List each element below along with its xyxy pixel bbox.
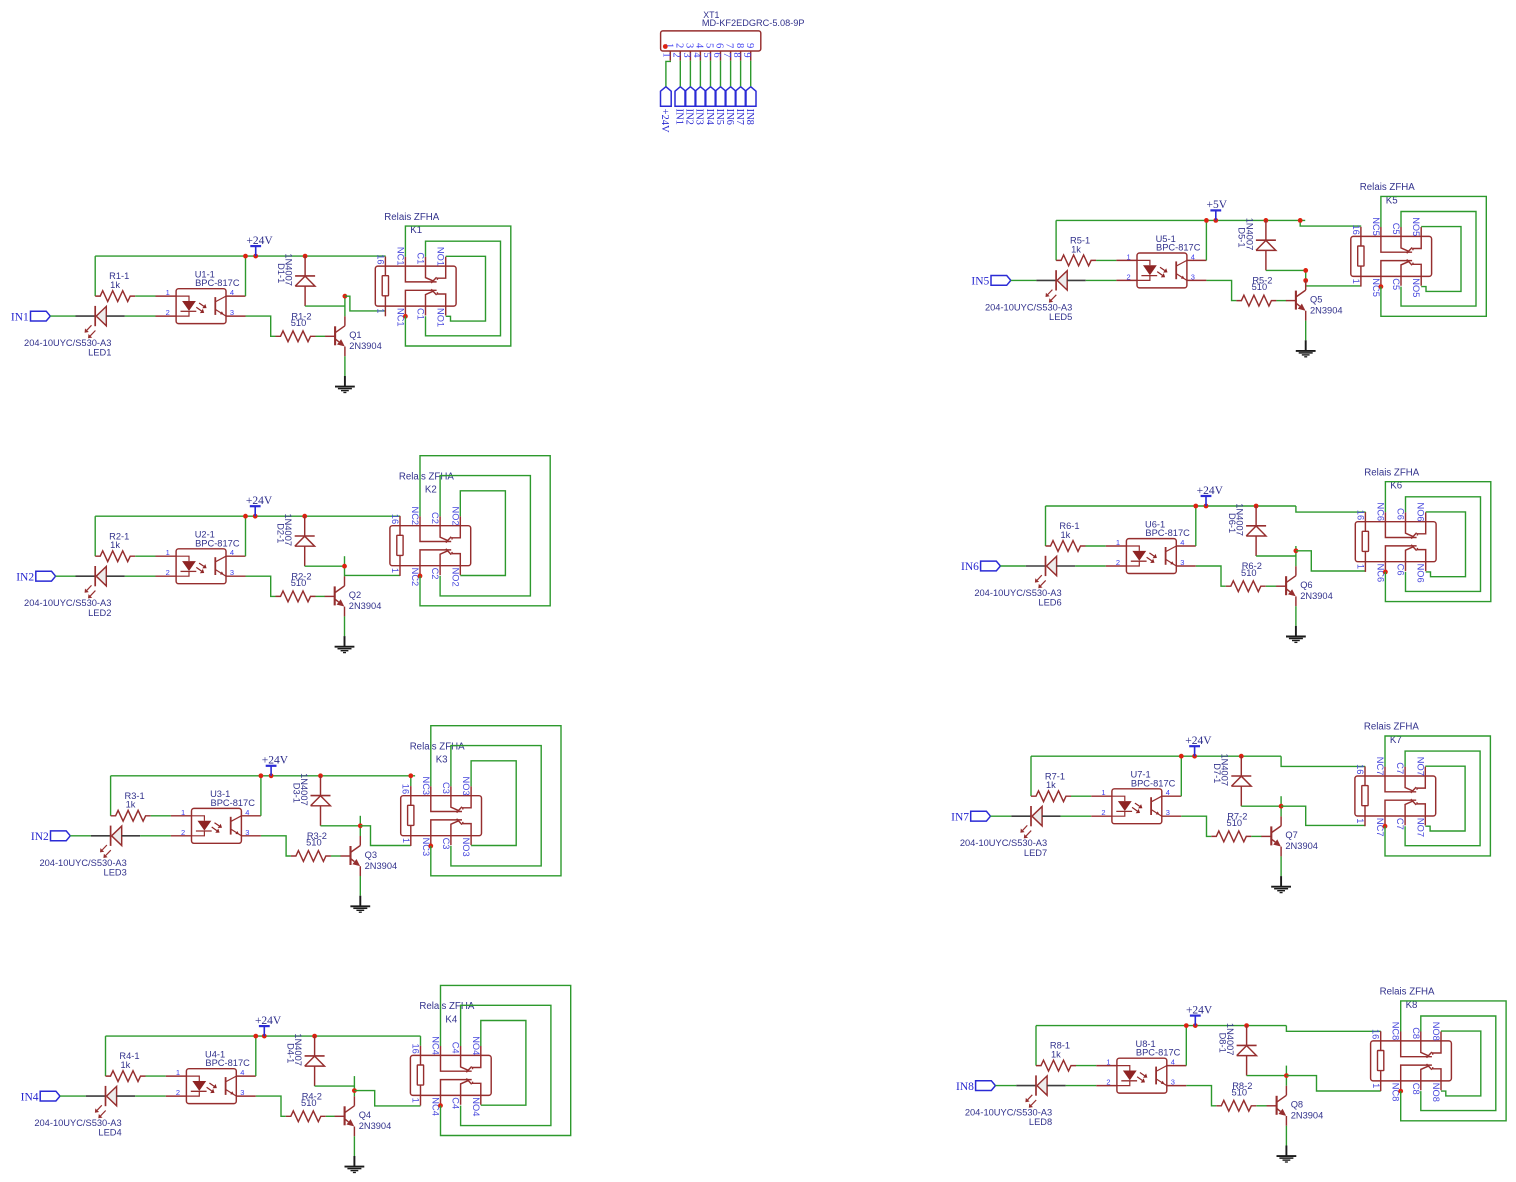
svg-text:3: 3 bbox=[1166, 808, 1170, 817]
svg-text:+24V: +24V bbox=[246, 235, 273, 247]
svg-text:BPC-817C: BPC-817C bbox=[195, 538, 240, 548]
wire port to LED bbox=[70, 835, 91, 837]
wire R to optocoupler pin 1 bbox=[151, 815, 171, 817]
svg-text:Q8: Q8 bbox=[1291, 1100, 1303, 1110]
power symbol +5V bbox=[1207, 199, 1228, 220]
svg-text:16: 16 bbox=[375, 254, 385, 264]
wire optocoupler pin 4 to rail bbox=[1195, 506, 1197, 546]
svg-text:4: 4 bbox=[691, 52, 702, 58]
port IN8 (XT1 pin 9) bbox=[744, 87, 756, 125]
svg-text:NO2: NO2 bbox=[450, 568, 460, 587]
wire LED to optocoupler pin 2 bbox=[1061, 815, 1092, 817]
svg-text:1: 1 bbox=[1356, 564, 1366, 569]
port IN2 (channel 3 input) bbox=[31, 831, 70, 843]
wire rail drop to relay pin 16 bbox=[420, 1036, 422, 1046]
wire C6 loop bbox=[1406, 497, 1481, 592]
svg-text:4: 4 bbox=[245, 808, 249, 817]
svg-text:1: 1 bbox=[411, 1098, 421, 1103]
LED1 204-10UYC/S530-A3 bbox=[24, 306, 125, 358]
transistor Q6 2N3904 bbox=[1276, 566, 1333, 606]
svg-text:9: 9 bbox=[744, 43, 755, 48]
LED8 204-10UYC/S530-A3 bbox=[965, 1075, 1066, 1127]
junction at optocoupler pin 4 / rail bbox=[1204, 218, 1209, 223]
wire rail step to relay pin 16 bbox=[1286, 1026, 1381, 1032]
wire LED to optocoupler pin 2 bbox=[1086, 279, 1117, 281]
wire port to LED bbox=[56, 575, 76, 577]
svg-text:5: 5 bbox=[701, 52, 712, 57]
wire collector node vertical bbox=[353, 1076, 355, 1096]
wire optocoupler pin 3 to base resistor bbox=[1186, 1086, 1216, 1106]
resistor R6-2 510 bbox=[1226, 561, 1266, 591]
port IN2 (XT1 pin 3) bbox=[684, 87, 696, 125]
node collector junction bbox=[1284, 1073, 1289, 1078]
junction at optocoupler pin 4 / rail bbox=[243, 254, 248, 259]
wire to relay pin 1 bbox=[1306, 285, 1361, 287]
svg-text:1: 1 bbox=[1351, 279, 1361, 284]
svg-text:NO1: NO1 bbox=[436, 247, 446, 266]
junction at relay NC bottom pin bbox=[1398, 1089, 1403, 1094]
connector XT1 pin 8 bbox=[731, 43, 745, 61]
junction at rail step bbox=[1298, 218, 1303, 223]
svg-text:4: 4 bbox=[1180, 538, 1184, 547]
wire NO6 loop bbox=[1426, 512, 1466, 577]
wire +V rail left vertical bbox=[94, 256, 96, 296]
svg-text:C4: C4 bbox=[451, 1097, 461, 1109]
resistor R7-2 510 bbox=[1211, 811, 1251, 841]
svg-text:IN1: IN1 bbox=[674, 109, 685, 125]
wire NC2 loop bbox=[420, 456, 550, 606]
junction at diode D1-1 / rail bbox=[303, 254, 308, 259]
svg-text:4: 4 bbox=[1171, 1058, 1175, 1067]
svg-text:IN3: IN3 bbox=[694, 109, 705, 125]
junction at optocoupler pin 4 / rail bbox=[1193, 504, 1198, 509]
node collector junction bbox=[1303, 268, 1308, 273]
svg-text:7: 7 bbox=[724, 43, 735, 48]
wire R to optocoupler pin 1 bbox=[1071, 795, 1091, 797]
svg-text:2: 2 bbox=[176, 1088, 180, 1097]
wire LED to optocoupler pin 2 bbox=[125, 315, 156, 317]
svg-text:C5: C5 bbox=[1391, 278, 1401, 290]
svg-text:BPC-817C: BPC-817C bbox=[1136, 1048, 1181, 1058]
wire to relay pin 1 bbox=[1296, 551, 1366, 571]
junction at relay pin 16 bbox=[408, 773, 413, 778]
resistor R4-1 1k bbox=[106, 1051, 146, 1081]
svg-text:510: 510 bbox=[291, 318, 307, 328]
svg-text:+24V: +24V bbox=[1197, 485, 1224, 497]
wire NC6 loop bbox=[1385, 482, 1490, 602]
svg-text:Relais ZFHA: Relais ZFHA bbox=[1364, 467, 1419, 478]
wire R to optocoupler pin 1 bbox=[135, 295, 155, 297]
ground bbox=[335, 376, 355, 393]
svg-text:Q1: Q1 bbox=[349, 330, 361, 340]
svg-text:1N4007: 1N4007 bbox=[1225, 1023, 1235, 1056]
LED5 204-10UYC/S530-A3 bbox=[985, 270, 1086, 322]
svg-text:2N3904: 2N3904 bbox=[1285, 841, 1318, 851]
wire optocoupler pin 4 to rail bbox=[1180, 756, 1182, 796]
svg-text:1: 1 bbox=[1371, 1083, 1381, 1088]
svg-text:C3: C3 bbox=[441, 838, 451, 850]
svg-text:16: 16 bbox=[1371, 1029, 1381, 1039]
svg-text:2N3904: 2N3904 bbox=[1310, 305, 1343, 315]
wire rail step to relay pin 16 bbox=[1300, 220, 1361, 226]
junction at diode D5-1 / rail bbox=[1264, 218, 1269, 223]
svg-text:Q3: Q3 bbox=[365, 850, 377, 860]
wire +V rail left vertical bbox=[110, 776, 112, 816]
svg-text:2: 2 bbox=[166, 568, 170, 577]
svg-text:3: 3 bbox=[245, 828, 249, 837]
svg-text:1: 1 bbox=[1355, 818, 1365, 823]
svg-text:BPC-817C: BPC-817C bbox=[1156, 243, 1201, 253]
wire rail step to relay pin 16 bbox=[1296, 506, 1366, 512]
junction at diode D8-1 / rail bbox=[1244, 1023, 1249, 1028]
svg-text:LED5: LED5 bbox=[1049, 312, 1072, 322]
power symbol +24V bbox=[1186, 1004, 1213, 1025]
svg-text:NC3: NC3 bbox=[421, 777, 431, 796]
wire +V rail left vertical bbox=[105, 1036, 107, 1076]
wire port to LED bbox=[50, 315, 75, 317]
wire to relay pin 1 bbox=[345, 574, 401, 576]
port IN4 (XT1 pin 5) bbox=[704, 87, 716, 126]
wire NC8 loop bbox=[1401, 1001, 1506, 1121]
svg-text:BPC-817C: BPC-817C bbox=[205, 1058, 250, 1068]
svg-text:1N4007: 1N4007 bbox=[1244, 218, 1254, 251]
svg-text:1k: 1k bbox=[1060, 530, 1070, 540]
junction at optocoupler pin 4 / rail bbox=[1179, 754, 1184, 759]
wire emitter to ground bbox=[344, 616, 346, 636]
diode D4-1 1N4007 bbox=[285, 1033, 324, 1086]
svg-text:6: 6 bbox=[714, 43, 725, 48]
wire emitter to ground bbox=[1285, 1126, 1287, 1146]
svg-text:NC1: NC1 bbox=[395, 247, 405, 266]
junction at diode D7-1 / rail bbox=[1239, 754, 1244, 759]
svg-text:2: 2 bbox=[1116, 558, 1120, 567]
node collector junction 2 bbox=[1303, 278, 1308, 283]
power junction on rail bbox=[253, 514, 258, 519]
svg-text:NO8: NO8 bbox=[1431, 1022, 1441, 1041]
ground bbox=[1271, 876, 1291, 893]
svg-text:1N4007: 1N4007 bbox=[299, 773, 309, 806]
wire base resistor to transistor bbox=[331, 855, 341, 857]
wire base resistor to transistor bbox=[1256, 1105, 1267, 1107]
wire XT1 pin 3 to IN2 port bbox=[689, 61, 691, 87]
transistor Q2 2N3904 bbox=[325, 576, 382, 616]
svg-text:NO7: NO7 bbox=[1415, 757, 1425, 776]
wire optocoupler pin 3 to base resistor bbox=[1181, 816, 1211, 836]
wire +V rail bbox=[1031, 755, 1281, 757]
resistor R2-2 510 bbox=[276, 571, 316, 601]
wire base resistor to transistor bbox=[316, 595, 326, 597]
node collector junction bbox=[358, 823, 363, 828]
svg-text:1: 1 bbox=[181, 808, 185, 817]
svg-text:1: 1 bbox=[401, 838, 411, 843]
svg-text:2: 2 bbox=[673, 43, 684, 48]
svg-text:4: 4 bbox=[230, 288, 234, 297]
svg-text:NC6: NC6 bbox=[1375, 503, 1385, 522]
svg-text:C2: C2 bbox=[430, 512, 440, 524]
wire +V rail bbox=[106, 1035, 421, 1037]
svg-text:Q4: Q4 bbox=[359, 1110, 371, 1120]
wire collector node vertical bbox=[1305, 270, 1307, 285]
LED3 204-10UYC/S530-A3 bbox=[39, 826, 140, 878]
svg-text:510: 510 bbox=[1227, 818, 1243, 828]
power symbol +24V bbox=[246, 495, 273, 516]
svg-text:NO6: NO6 bbox=[1416, 564, 1426, 583]
connector XT1 pin 2 bbox=[671, 43, 685, 61]
wire emitter to ground bbox=[1280, 856, 1282, 876]
svg-text:C7: C7 bbox=[1395, 762, 1405, 774]
wire optocoupler pin 3 to base resistor bbox=[1196, 566, 1226, 586]
wire +V rail bbox=[95, 255, 385, 257]
wire emitter to ground bbox=[1305, 321, 1307, 341]
port IN1 (XT1 pin 2) bbox=[674, 87, 686, 125]
wire collector node vertical bbox=[344, 556, 346, 576]
svg-text:1: 1 bbox=[390, 568, 400, 573]
svg-text:LED8: LED8 bbox=[1029, 1117, 1052, 1127]
svg-text:16: 16 bbox=[1355, 510, 1365, 520]
svg-text:IN4: IN4 bbox=[704, 109, 715, 126]
wire diode anode to collector node bbox=[1256, 555, 1296, 557]
svg-text:4: 4 bbox=[240, 1068, 244, 1077]
node collector junction bbox=[342, 564, 347, 569]
svg-text:+24V: +24V bbox=[262, 755, 289, 767]
svg-text:2: 2 bbox=[166, 308, 170, 317]
optocoupler U5-1 BPC-817C bbox=[1116, 234, 1206, 288]
svg-text:1N4007: 1N4007 bbox=[284, 253, 294, 286]
svg-text:K2: K2 bbox=[425, 485, 437, 496]
svg-text:1: 1 bbox=[1106, 1058, 1110, 1067]
svg-text:NC4: NC4 bbox=[431, 1036, 441, 1055]
svg-text:1k: 1k bbox=[1071, 244, 1081, 254]
resistor R8-2 510 bbox=[1216, 1081, 1256, 1111]
wire base resistor to transistor bbox=[326, 1115, 335, 1117]
diode D1-1 1N4007 bbox=[276, 253, 315, 306]
wire C3 loop bbox=[451, 746, 541, 866]
svg-text:2N3904: 2N3904 bbox=[1291, 1111, 1324, 1121]
wire collector node vertical bbox=[1295, 546, 1297, 566]
wire base resistor to transistor bbox=[1251, 835, 1261, 837]
port IN4 (channel 4 input) bbox=[21, 1091, 60, 1103]
wire diode anode to collector node bbox=[305, 565, 345, 567]
svg-text:IN6: IN6 bbox=[961, 561, 979, 573]
port IN1 (channel 1 input) bbox=[11, 311, 50, 323]
wire to relay pin 1 bbox=[360, 826, 411, 846]
wire XT1 pin 5 to IN4 port bbox=[710, 61, 712, 87]
power junction on rail bbox=[1213, 218, 1218, 223]
connector XT1 pin 6 bbox=[711, 43, 725, 61]
svg-text:IN5: IN5 bbox=[714, 109, 725, 125]
svg-text:IN2: IN2 bbox=[31, 831, 49, 843]
junction at relay NC bottom pin bbox=[1383, 824, 1388, 829]
wire collector node vertical bbox=[359, 816, 361, 836]
wire emitter to ground bbox=[353, 1136, 355, 1156]
svg-text:BPC-817C: BPC-817C bbox=[211, 798, 256, 808]
svg-text:2: 2 bbox=[181, 828, 185, 837]
svg-text:MD-KF2EDGRC-5.08-9P: MD-KF2EDGRC-5.08-9P bbox=[702, 18, 805, 28]
wire XT1 pin 9 to IN8 port bbox=[750, 61, 752, 87]
diode D2-1 1N4007 bbox=[276, 514, 315, 567]
connector XT1 pin 3 bbox=[681, 43, 695, 61]
node collector junction bbox=[1294, 548, 1299, 553]
transistor Q4 2N3904 bbox=[335, 1096, 392, 1136]
svg-text:NO2: NO2 bbox=[450, 507, 460, 526]
svg-text:1: 1 bbox=[661, 52, 672, 57]
wire +V rail left vertical bbox=[1055, 220, 1057, 260]
svg-text:Q5: Q5 bbox=[1310, 294, 1322, 304]
LED7 204-10UYC/S530-A3 bbox=[960, 806, 1061, 858]
svg-text:NO8: NO8 bbox=[1431, 1083, 1441, 1102]
svg-text:204-10UYC/S530-A3: 204-10UYC/S530-A3 bbox=[24, 338, 111, 348]
wire C7 loop bbox=[1405, 751, 1480, 846]
power junction on rail bbox=[1204, 504, 1209, 509]
optocoupler U4-1 BPC-817C bbox=[166, 1050, 256, 1104]
diode D8-1 1N4007 bbox=[1217, 1023, 1256, 1076]
wire NC1 loop bbox=[405, 226, 510, 346]
transistor Q1 2N3904 bbox=[325, 316, 382, 356]
wire NO5 loop bbox=[1421, 227, 1461, 292]
resistor R1-1 1k bbox=[95, 271, 135, 301]
svg-text:NC8: NC8 bbox=[1391, 1022, 1401, 1041]
svg-text:BPC-817C: BPC-817C bbox=[1131, 778, 1176, 788]
svg-text:Relais ZFHA: Relais ZFHA bbox=[384, 212, 439, 223]
wire diode anode to collector node bbox=[321, 825, 361, 827]
optocoupler U2-1 BPC-817C bbox=[156, 530, 246, 584]
svg-text:IN8: IN8 bbox=[956, 1081, 974, 1093]
svg-text:16: 16 bbox=[410, 1044, 420, 1054]
svg-text:5: 5 bbox=[704, 43, 715, 48]
svg-text:3: 3 bbox=[681, 52, 692, 57]
svg-text:Relais ZFHA: Relais ZFHA bbox=[1364, 722, 1419, 733]
svg-text:1k: 1k bbox=[1046, 780, 1056, 790]
wire LED to optocoupler pin 2 bbox=[1075, 565, 1106, 567]
ground bbox=[350, 896, 370, 913]
svg-text:16: 16 bbox=[1351, 225, 1361, 235]
connector XT1 MD-KF2EDGRC-5.08-9P bbox=[661, 10, 805, 51]
wire base resistor to transistor bbox=[316, 335, 326, 337]
svg-text:BPC-817C: BPC-817C bbox=[195, 278, 240, 288]
relay K5 Relais ZFHA bbox=[1351, 182, 1432, 297]
svg-text:NC2: NC2 bbox=[410, 507, 420, 526]
optocoupler U3-1 BPC-817C bbox=[171, 789, 261, 843]
svg-text:IN7: IN7 bbox=[951, 811, 969, 823]
wire diode anode to collector node bbox=[1266, 269, 1306, 271]
svg-text:2N3904: 2N3904 bbox=[1300, 591, 1333, 601]
svg-text:204-10UYC/S530-A3: 204-10UYC/S530-A3 bbox=[985, 302, 1072, 312]
LED4 204-10UYC/S530-A3 bbox=[34, 1086, 135, 1138]
wire optocoupler pin 3 to base resistor bbox=[261, 836, 291, 856]
svg-text:NO5: NO5 bbox=[1411, 278, 1421, 297]
LED6 204-10UYC/S530-A3 bbox=[974, 556, 1075, 608]
svg-text:1: 1 bbox=[166, 548, 170, 557]
wire NC4 loop bbox=[441, 985, 571, 1135]
svg-text:Relais ZFHA: Relais ZFHA bbox=[399, 471, 454, 482]
svg-text:1: 1 bbox=[1127, 252, 1131, 261]
svg-text:LED7: LED7 bbox=[1024, 848, 1047, 858]
svg-text:3: 3 bbox=[684, 43, 695, 48]
wire NO3 loop bbox=[471, 761, 516, 846]
relay K1 Relais ZFHA bbox=[375, 212, 456, 327]
wire optocoupler pin 3 to base resistor bbox=[246, 316, 276, 336]
port IN2 (channel 2 input) bbox=[16, 571, 55, 583]
svg-text:NO4: NO4 bbox=[471, 1097, 481, 1116]
wire XT1 pin 4 to IN3 port bbox=[699, 61, 701, 87]
svg-text:1N4007: 1N4007 bbox=[1220, 754, 1230, 787]
svg-text:+5V: +5V bbox=[1207, 199, 1228, 211]
svg-text:2: 2 bbox=[1106, 1078, 1110, 1087]
junction at diode D4-1 / rail bbox=[312, 1034, 317, 1039]
transistor Q3 2N3904 bbox=[341, 836, 398, 876]
power symbol +24V bbox=[255, 1015, 282, 1036]
power junction on rail bbox=[269, 773, 274, 778]
svg-text:1: 1 bbox=[1101, 788, 1105, 797]
wire +V rail left vertical bbox=[94, 516, 96, 556]
ground bbox=[335, 636, 355, 653]
svg-text:C3: C3 bbox=[441, 782, 451, 794]
port IN5 (channel 5 input) bbox=[971, 276, 1010, 288]
svg-text:C1: C1 bbox=[416, 308, 426, 320]
wire optocoupler pin 4 to rail bbox=[1205, 220, 1207, 260]
wire R to optocoupler pin 1 bbox=[135, 555, 155, 557]
svg-text:C8: C8 bbox=[1411, 1027, 1421, 1039]
resistor R3-2 510 bbox=[291, 831, 331, 861]
wire +V rail bbox=[1046, 505, 1296, 507]
LED2 204-10UYC/S530-A3 bbox=[24, 566, 125, 618]
svg-text:1N4007: 1N4007 bbox=[1235, 503, 1245, 536]
svg-text:510: 510 bbox=[1232, 1087, 1248, 1097]
wire diode anode to collector node bbox=[1241, 805, 1281, 807]
svg-text:IN8: IN8 bbox=[744, 109, 755, 125]
wire optocoupler pin 4 to rail bbox=[260, 776, 262, 816]
svg-text:2N3904: 2N3904 bbox=[365, 861, 398, 871]
wire collector node vertical bbox=[1280, 796, 1282, 816]
svg-text:C7: C7 bbox=[1395, 818, 1405, 830]
svg-text:+24V: +24V bbox=[659, 109, 670, 133]
svg-text:1: 1 bbox=[1116, 538, 1120, 547]
svg-text:8: 8 bbox=[731, 52, 742, 57]
svg-text:C5: C5 bbox=[1391, 223, 1401, 235]
wire rail drop to relay pin 16 bbox=[410, 776, 412, 786]
port IN7 (channel 7 input) bbox=[951, 811, 990, 823]
svg-text:2N3904: 2N3904 bbox=[349, 341, 382, 351]
svg-text:Q7: Q7 bbox=[1285, 830, 1297, 840]
power symbol +24V bbox=[262, 755, 289, 776]
wire NC5 loop bbox=[1381, 196, 1486, 316]
wire to relay pin 1 bbox=[354, 1091, 420, 1106]
svg-text:1k: 1k bbox=[110, 540, 120, 550]
wire +V rail bbox=[1036, 1025, 1286, 1027]
port IN5 (XT1 pin 6) bbox=[714, 87, 726, 125]
svg-text:C6: C6 bbox=[1396, 564, 1406, 576]
svg-text:510: 510 bbox=[1241, 568, 1257, 578]
port IN8 (channel 8 input) bbox=[956, 1081, 995, 1093]
connector XT1 pin 7 bbox=[721, 43, 735, 61]
power junction on rail bbox=[253, 254, 258, 259]
wire XT1 pin 8 to IN7 port bbox=[740, 61, 742, 87]
svg-text:NC5: NC5 bbox=[1371, 217, 1381, 236]
wire NO7 loop bbox=[1425, 766, 1465, 831]
svg-text:1: 1 bbox=[176, 1068, 180, 1077]
junction at relay NC bottom pin bbox=[418, 574, 423, 579]
svg-text:IN5: IN5 bbox=[971, 276, 989, 288]
connector XT1 pin 9 bbox=[741, 43, 755, 61]
wire port to LED bbox=[1011, 279, 1037, 281]
svg-text:4: 4 bbox=[1191, 252, 1195, 261]
wire NO8 loop bbox=[1441, 1031, 1481, 1096]
wire +V rail bbox=[95, 515, 400, 517]
svg-text:3: 3 bbox=[1171, 1078, 1175, 1087]
wire emitter to ground bbox=[1295, 606, 1297, 626]
svg-text:2: 2 bbox=[1127, 272, 1131, 281]
wire +V rail left vertical bbox=[1035, 1026, 1037, 1066]
